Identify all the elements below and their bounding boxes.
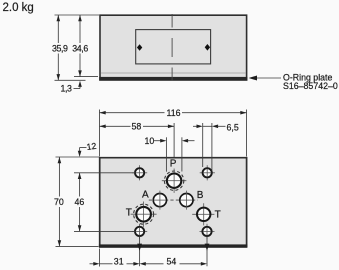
svg-text:35,9: 35,9 <box>52 43 68 53</box>
dimension 10 <box>145 136 195 146</box>
svg-text:S16–85742–0: S16–85742–0 <box>283 81 338 91</box>
svg-text:6,5: 6,5 <box>227 122 239 132</box>
svg-text:A: A <box>142 190 149 201</box>
dimension 12 <box>78 141 97 157</box>
extension line P centerline up <box>173 123 175 157</box>
svg-text:34,6: 34,6 <box>72 43 88 53</box>
side view faint parting line <box>101 72 246 74</box>
bottom extension line from hole BL with edge arrow <box>137 236 142 266</box>
extension line front top edge left <box>56 156 100 158</box>
dimension 31 <box>90 257 140 267</box>
bottom extension line from hole BR with edge arrow <box>205 236 210 266</box>
svg-text:T: T <box>126 207 132 218</box>
mounting hole bottom-left <box>132 224 147 239</box>
mounting hole top-right <box>200 165 215 180</box>
side view valve footprint rectangle <box>136 30 211 64</box>
svg-text:T: T <box>215 209 221 220</box>
svg-text:P: P <box>170 159 177 170</box>
dimension 1,3 <box>61 81 82 94</box>
extension line P right tangent <box>181 137 183 171</box>
front view bottom thick edge <box>99 244 248 247</box>
extension line front bottom edge left <box>56 245 99 247</box>
svg-text:54: 54 <box>167 257 177 267</box>
port T right <box>192 203 215 225</box>
front view plate body <box>100 157 247 248</box>
extension line P left tangent <box>165 137 167 171</box>
dimension 35,9 <box>52 15 68 80</box>
extension line front left edge (top dims) <box>99 110 101 157</box>
svg-text:B: B <box>197 190 204 201</box>
extension line 6,5 right tangent <box>211 123 213 171</box>
port B <box>180 191 193 210</box>
svg-text:70: 70 <box>54 197 64 207</box>
dimension 34,6 <box>72 15 88 77</box>
svg-text:12: 12 <box>86 141 97 152</box>
svg-text:10: 10 <box>145 136 155 146</box>
svg-text:31: 31 <box>114 257 124 267</box>
extension line 6,5 left tangent <box>202 123 204 167</box>
svg-text:58: 58 <box>132 122 142 132</box>
dimension 6,5 <box>193 122 239 132</box>
extension line bottom hole row left <box>74 230 135 232</box>
side view plate body <box>100 15 247 81</box>
side view extension line bottom <box>55 79 86 81</box>
locating pin diamond left <box>137 44 142 51</box>
A-B dashed centerline <box>149 199 198 201</box>
port A <box>153 191 166 210</box>
svg-text:1,3: 1,3 <box>61 84 73 94</box>
svg-text:46: 46 <box>75 197 85 207</box>
port T left <box>131 202 157 227</box>
dimension 70 <box>54 157 64 246</box>
side view bottom O-ring strip (thick edge) <box>99 77 247 81</box>
O-Ring plate callout arrow <box>249 76 281 81</box>
locating pin diamond right <box>205 44 210 51</box>
svg-text:116: 116 <box>167 108 181 118</box>
bottom extension line left edge <box>99 249 101 267</box>
side view extension line top <box>55 14 100 16</box>
side view vertical centerline <box>171 14 173 81</box>
mounting hole bottom-right <box>200 224 215 239</box>
side view extension line at strip top <box>74 76 98 78</box>
extension line front right edge (top dims) <box>246 110 248 157</box>
svg-text:2.0 kg: 2.0 kg <box>3 2 34 14</box>
dimension 58 <box>100 122 175 132</box>
dimension 46 <box>75 173 85 232</box>
mounting hole top-left <box>132 165 147 180</box>
dimension 116 <box>100 108 247 118</box>
extension line top hole row left <box>74 172 135 174</box>
dimension 54 <box>140 257 207 267</box>
port P <box>162 169 187 193</box>
